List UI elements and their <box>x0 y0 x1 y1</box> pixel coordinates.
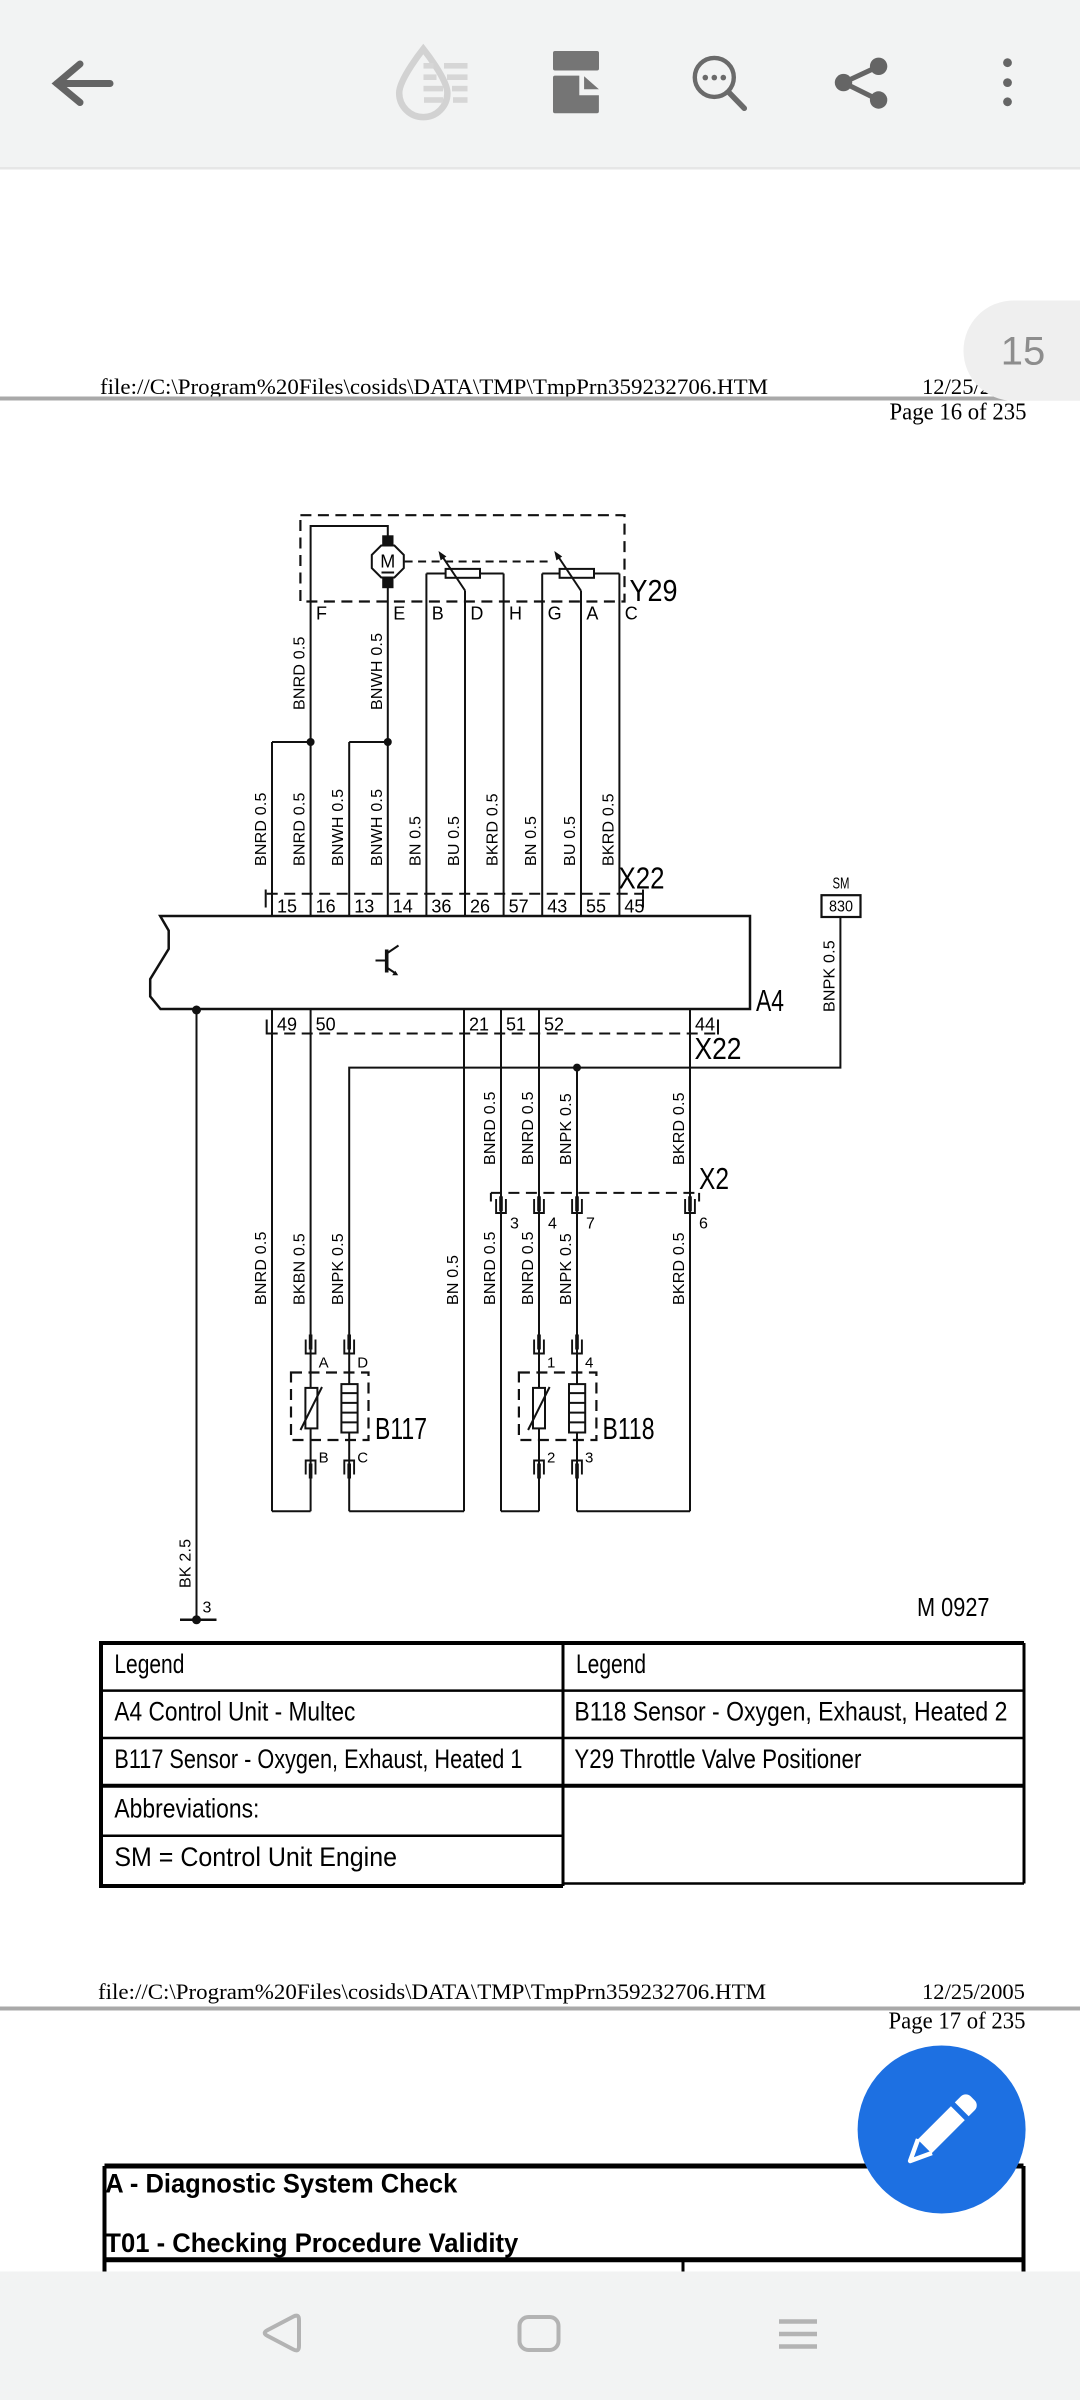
svg-text:BNRD 0.5: BNRD 0.5 <box>292 792 309 866</box>
svg-text:BNRD 0.5: BNRD 0.5 <box>292 636 309 710</box>
svg-text:52: 52 <box>544 1015 564 1035</box>
svg-text:SM = Control Unit Engine: SM = Control Unit Engine <box>114 1842 397 1872</box>
svg-text:Y29 Throttle Valve Positioner: Y29 Throttle Valve Positioner <box>574 1744 861 1774</box>
svg-text:49: 49 <box>277 1015 297 1035</box>
svg-text:Page 16 of 235: Page 16 of 235 <box>890 400 1027 426</box>
svg-text:BU 0.5: BU 0.5 <box>446 816 463 866</box>
svg-text:BNPK 0.5: BNPK 0.5 <box>821 940 838 1012</box>
svg-text:4: 4 <box>585 1355 593 1372</box>
svg-text:1: 1 <box>547 1355 555 1372</box>
svg-text:D: D <box>357 1355 368 1372</box>
svg-text:BNRD 0.5: BNRD 0.5 <box>520 1091 537 1165</box>
svg-text:A4: A4 <box>756 983 784 1018</box>
svg-text:Page 17 of 235: Page 17 of 235 <box>889 2009 1026 2035</box>
svg-text:BNRD 0.5: BNRD 0.5 <box>253 792 270 866</box>
svg-text:X22: X22 <box>619 861 665 896</box>
svg-text:B118 Sensor - Oxygen, Exhaust,: B118 Sensor - Oxygen, Exhaust, Heated 2 <box>574 1697 1007 1727</box>
svg-text:45: 45 <box>624 897 644 917</box>
svg-text:BNPK 0.5: BNPK 0.5 <box>558 1233 575 1305</box>
svg-text:C: C <box>357 1450 368 1467</box>
svg-text:BNWH 0.5: BNWH 0.5 <box>369 789 386 866</box>
svg-text:A - Diagnostic System Check: A - Diagnostic System Check <box>105 2169 458 2199</box>
svg-text:SM: SM <box>833 876 850 893</box>
svg-text:M 0927: M 0927 <box>917 1592 990 1622</box>
svg-text:G: G <box>548 604 562 624</box>
svg-text:13: 13 <box>354 897 374 917</box>
svg-text:BU 0.5: BU 0.5 <box>562 816 579 866</box>
svg-text:3: 3 <box>203 1600 212 1617</box>
svg-text:B118: B118 <box>603 1411 655 1446</box>
svg-text:A: A <box>586 604 598 624</box>
svg-text:BNRD 0.5: BNRD 0.5 <box>482 1091 499 1165</box>
svg-text:A4 Control Unit - Multec: A4 Control Unit - Multec <box>114 1697 355 1727</box>
svg-text:26: 26 <box>470 897 490 917</box>
svg-text:BNRD 0.5: BNRD 0.5 <box>520 1231 537 1305</box>
svg-text:Legend: Legend <box>114 1649 184 1679</box>
svg-text:2: 2 <box>547 1450 555 1467</box>
svg-text:BKRD 0.5: BKRD 0.5 <box>671 1092 688 1165</box>
svg-text:14: 14 <box>393 897 413 917</box>
svg-text:A: A <box>319 1355 329 1372</box>
svg-text:BKRD 0.5: BKRD 0.5 <box>671 1232 688 1305</box>
svg-text:BN 0.5: BN 0.5 <box>445 1255 462 1305</box>
svg-text:B117 Sensor - Oxygen, Exhaust,: B117 Sensor - Oxygen, Exhaust, Heated 1 <box>114 1744 522 1774</box>
svg-text:6: 6 <box>699 1216 708 1233</box>
svg-text:H: H <box>509 604 522 624</box>
svg-text:BN 0.5: BN 0.5 <box>523 816 540 866</box>
svg-text:16: 16 <box>316 897 336 917</box>
svg-text:55: 55 <box>586 897 606 917</box>
svg-text:BNPK 0.5: BNPK 0.5 <box>330 1233 347 1305</box>
svg-text:3: 3 <box>510 1216 519 1233</box>
svg-text:B: B <box>432 604 444 624</box>
svg-text:44: 44 <box>695 1015 715 1035</box>
svg-text:36: 36 <box>431 897 451 917</box>
svg-text:BN 0.5: BN 0.5 <box>407 816 424 866</box>
svg-text:BNPK 0.5: BNPK 0.5 <box>558 1093 575 1165</box>
svg-text:BKRD 0.5: BKRD 0.5 <box>600 793 617 866</box>
svg-text:E: E <box>393 604 405 624</box>
svg-text:file://C:\Program%20Files\cosi: file://C:\Program%20Files\cosids\DATA\TM… <box>98 1979 766 2004</box>
svg-text:X2: X2 <box>699 1161 729 1196</box>
svg-text:50: 50 <box>316 1015 336 1035</box>
svg-text:57: 57 <box>509 897 529 917</box>
svg-text:B: B <box>319 1450 329 1467</box>
svg-text:BK 2.5: BK 2.5 <box>178 1539 195 1588</box>
svg-text:BKBN 0.5: BKBN 0.5 <box>292 1233 309 1305</box>
svg-text:830: 830 <box>829 899 853 916</box>
svg-text:B117: B117 <box>375 1411 427 1446</box>
svg-text:7: 7 <box>586 1216 595 1233</box>
svg-text:D: D <box>470 604 483 624</box>
svg-text:BNWH 0.5: BNWH 0.5 <box>330 789 347 866</box>
svg-text:F: F <box>316 604 327 624</box>
svg-text:X22: X22 <box>695 1031 742 1066</box>
svg-text:3: 3 <box>585 1450 593 1467</box>
svg-text:Legend: Legend <box>576 1649 646 1679</box>
svg-text:BNWH 0.5: BNWH 0.5 <box>369 633 386 710</box>
svg-text:15: 15 <box>1001 330 1046 374</box>
svg-text:BKRD 0.5: BKRD 0.5 <box>485 793 502 866</box>
svg-text:T01 - Checking Procedure Valid: T01 - Checking Procedure Validity <box>105 2228 518 2258</box>
svg-text:12/25/2005: 12/25/2005 <box>922 1979 1025 2004</box>
svg-text:BNRD 0.5: BNRD 0.5 <box>482 1231 499 1305</box>
svg-text:C: C <box>625 604 638 624</box>
svg-text:21: 21 <box>469 1015 489 1035</box>
svg-text:4: 4 <box>548 1216 557 1233</box>
svg-text:15: 15 <box>277 897 297 917</box>
svg-text:Abbreviations:: Abbreviations: <box>114 1794 259 1824</box>
svg-text:43: 43 <box>547 897 567 917</box>
svg-text:51: 51 <box>506 1015 526 1035</box>
svg-text:file://C:\Program%20Files\cosi: file://C:\Program%20Files\cosids\DATA\TM… <box>100 374 768 399</box>
svg-text:BNRD 0.5: BNRD 0.5 <box>253 1231 270 1305</box>
svg-text:M: M <box>380 552 395 572</box>
